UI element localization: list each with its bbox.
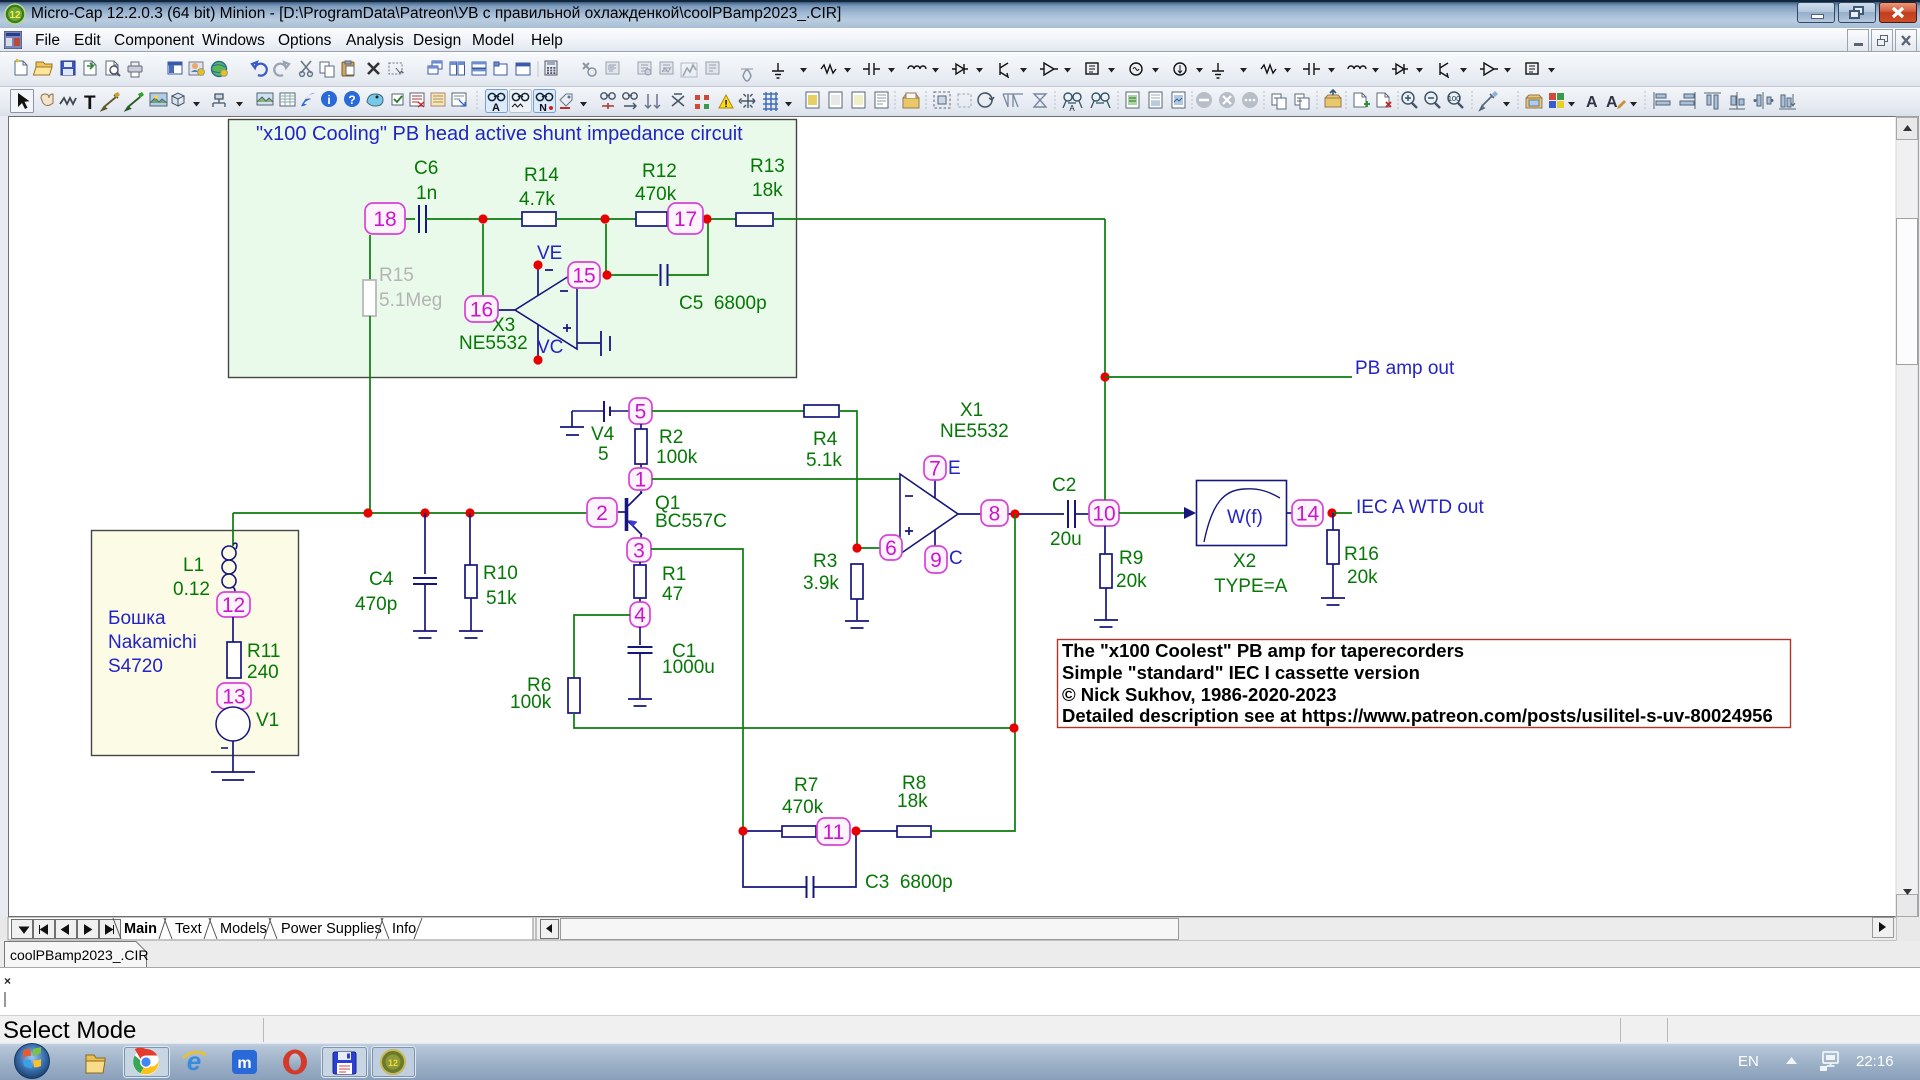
X1 pin9 supply <box>934 530 936 547</box>
svg-text:R1: R1 <box>662 564 686 585</box>
svg-text:1000u: 1000u <box>662 657 715 678</box>
svg-text:!: ! <box>724 99 727 110</box>
resistor R7 <box>782 826 816 837</box>
svg-text:A: A <box>1586 94 1598 111</box>
resistor R15 (disabled) <box>363 280 376 316</box>
svg-text:V1: V1 <box>256 710 279 731</box>
svg-text:5: 5 <box>635 401 647 424</box>
resistor R12 <box>636 212 667 226</box>
svg-text:100k: 100k <box>510 692 552 713</box>
wire node16 to X3 output <box>498 309 515 311</box>
wire R4 down to plus node <box>839 411 857 548</box>
wire plus input <box>857 547 882 549</box>
transistor Q1 <box>625 498 629 531</box>
ground R3 <box>845 621 869 628</box>
X2 input arrow <box>1184 507 1196 519</box>
wire X2 to node14 <box>1287 512 1292 514</box>
X1 pin7 supply <box>934 480 936 498</box>
svg-text:E: E <box>948 458 961 479</box>
PB amp out wire <box>1105 376 1352 378</box>
node 6 <box>880 535 902 560</box>
wire node12 to R11 <box>232 617 234 642</box>
svg-text:i: i <box>327 93 330 107</box>
resistor R11 <box>227 642 241 678</box>
svg-text:Models: Models <box>220 921 267 937</box>
svg-text:"x100 Cooling" PB head active: "x100 Cooling" PB head active shunt impe… <box>256 123 743 145</box>
node 1 <box>629 468 652 490</box>
junction node14/R16 <box>1327 508 1336 517</box>
svg-text:A: A <box>1069 104 1075 113</box>
wire node5 to R4 <box>652 410 804 412</box>
junction feedback/R6 <box>1009 723 1018 732</box>
source V1 <box>216 707 250 741</box>
ground R16 <box>1321 598 1345 605</box>
svg-text:6: 6 <box>885 537 897 560</box>
svg-text:7: 7 <box>929 458 941 481</box>
svg-text:A: A <box>492 102 500 114</box>
svg-text:18k: 18k <box>752 180 783 201</box>
svg-text:coolPBamp2023_.CIR: coolPBamp2023_.CIR <box>10 947 149 963</box>
tape head box <box>92 531 299 756</box>
junction R14/R12 <box>600 214 609 223</box>
resistor R9 <box>1104 526 1106 554</box>
svg-text:V4: V4 <box>591 424 615 445</box>
svg-text:12: 12 <box>222 594 245 617</box>
svg-text:C: C <box>949 548 963 569</box>
svg-text:R14: R14 <box>524 165 559 186</box>
resistor R10 <box>469 513 471 565</box>
node 8 <box>981 500 1008 526</box>
svg-text:R16: R16 <box>1344 544 1379 565</box>
svg-text:10: 10 <box>1092 503 1115 526</box>
svg-text:0.12: 0.12 <box>173 579 210 600</box>
wire node18 to C6 <box>405 218 415 220</box>
svg-text:1: 1 <box>635 469 647 492</box>
svg-text:NE5532: NE5532 <box>459 333 528 354</box>
svg-text:240: 240 <box>247 662 279 683</box>
resistor R3 <box>851 564 863 599</box>
svg-text:470k: 470k <box>782 797 824 818</box>
wire node4 left to R6 <box>574 615 630 678</box>
svg-text:12: 12 <box>388 1058 398 1068</box>
node 12 <box>217 592 250 617</box>
ground C4 <box>413 631 437 638</box>
svg-text:Main: Main <box>124 921 157 937</box>
svg-text:The "x100 Coolest" PB amp for: The "x100 Coolest" PB amp for taperecord… <box>1062 640 1464 661</box>
junction plus input <box>852 543 861 552</box>
ground R10 <box>459 631 483 638</box>
ground C1 <box>628 699 652 706</box>
svg-text:11: 11 <box>823 821 845 844</box>
svg-text:470k: 470k <box>635 184 677 205</box>
svg-text:2: 2 <box>596 502 608 525</box>
wire R7 left <box>743 830 782 832</box>
capacitor C3 branch <box>743 831 806 887</box>
resistor R8 <box>897 826 931 837</box>
svg-text:IEC A WTD out: IEC A WTD out <box>1356 497 1484 518</box>
svg-text:8: 8 <box>989 503 1001 526</box>
junction R13 left <box>702 214 711 223</box>
op-amp X1 <box>900 474 958 554</box>
wire into head box <box>232 513 234 546</box>
resistor R14 <box>522 212 556 226</box>
svg-text:R9: R9 <box>1119 548 1143 569</box>
wire node15 to C5 <box>607 274 658 276</box>
svg-text:22:16: 22:16 <box>1856 1053 1894 1070</box>
svg-text:4.7k: 4.7k <box>519 189 555 210</box>
node 15 <box>568 262 600 288</box>
svg-text:S4720: S4720 <box>108 656 163 677</box>
description box <box>1058 640 1791 728</box>
svg-text:C6: C6 <box>414 158 438 179</box>
junction node11/R8 <box>851 826 860 835</box>
node 3 <box>627 538 651 562</box>
svg-text:e: e <box>187 1046 201 1076</box>
wire R14-R12 junction down to node15 <box>605 224 607 275</box>
svg-text:m: m <box>237 1055 251 1072</box>
svg-text:9: 9 <box>930 549 942 572</box>
svg-text:5.1k: 5.1k <box>806 450 842 471</box>
capacitor C4 <box>424 513 426 574</box>
inductor L1 <box>233 543 237 549</box>
svg-text:C5 6800p: C5 6800p <box>679 293 767 314</box>
svg-text:T: T <box>84 93 96 114</box>
wire R8 to node11 <box>856 830 897 832</box>
wire junction down to node16 <box>482 224 484 296</box>
node 13 <box>217 683 251 709</box>
svg-text:R3: R3 <box>813 551 837 572</box>
node 5 <box>629 398 652 424</box>
battery V4 <box>572 410 604 412</box>
junction node8 output <box>1010 509 1019 518</box>
ground V1 <box>211 772 255 780</box>
svg-text:BC557C: BC557C <box>655 511 727 532</box>
svg-text:18: 18 <box>373 208 396 231</box>
X3 plus input ground <box>577 342 600 344</box>
node 14 <box>1292 500 1323 526</box>
junction node15 <box>602 270 611 279</box>
junction PB amp out <box>1100 372 1109 381</box>
svg-text:4: 4 <box>634 604 646 627</box>
svg-text:Text: Text <box>175 921 202 937</box>
svg-text:VC: VC <box>537 337 563 358</box>
svg-text:N: N <box>539 102 547 114</box>
svg-text:R2: R2 <box>659 427 683 448</box>
wire node3 right and down to feedback <box>651 549 743 831</box>
wire C6 to R14 <box>426 218 522 220</box>
svg-text:Info: Info <box>392 921 416 937</box>
svg-text:X1: X1 <box>960 400 983 421</box>
wire node10 to X2 <box>1119 512 1185 514</box>
svg-text:100: 100 <box>1448 94 1461 103</box>
svg-text:R4: R4 <box>813 429 838 450</box>
node 10 <box>1089 500 1119 526</box>
svg-text:Detailed description see at ht: Detailed description see at https://www.… <box>1062 705 1773 726</box>
svg-text:© Nick Sukhov, 1986-2020-2023: © Nick Sukhov, 1986-2020-2023 <box>1062 684 1337 705</box>
svg-text:5.1Meg: 5.1Meg <box>379 290 442 311</box>
node 18 <box>365 203 405 234</box>
op-amp X3 <box>515 271 577 349</box>
svg-text:20u: 20u <box>1050 529 1082 550</box>
svg-text:TYPE=A: TYPE=A <box>1214 576 1288 597</box>
svg-text:5: 5 <box>598 444 609 465</box>
wire node14 out <box>1332 512 1352 514</box>
capacitor C5 <box>661 264 668 286</box>
resistor R13 <box>736 213 773 226</box>
svg-text:Бошка: Бошка <box>108 608 166 629</box>
junction main/cooling branch <box>363 508 372 517</box>
svg-text:100k: 100k <box>656 447 698 468</box>
wire R13 to PB amp node <box>773 218 1105 220</box>
svg-text:X2: X2 <box>1233 551 1256 572</box>
svg-text:13: 13 <box>222 686 245 709</box>
wire node17 to R13 <box>703 218 736 220</box>
svg-text:15: 15 <box>572 265 595 288</box>
svg-text:VE: VE <box>537 243 562 264</box>
svg-text:18k: 18k <box>897 791 928 812</box>
svg-text:Power Supplies: Power Supplies <box>281 921 382 937</box>
capacitor C6 <box>419 205 426 233</box>
ground V4 <box>571 411 573 427</box>
svg-text:R12: R12 <box>642 161 677 182</box>
svg-text:NE5532: NE5532 <box>940 421 1009 442</box>
wire node18 down left branch <box>369 235 371 280</box>
resistor R1 <box>639 562 641 565</box>
wire V1 to ground <box>232 741 234 772</box>
weighting block X2 <box>1197 481 1287 546</box>
ground R9 <box>1094 620 1118 627</box>
svg-text:3.9k: 3.9k <box>803 573 839 594</box>
wire Q1 collector to node1 / emitter to node3 <box>640 491 642 494</box>
svg-text:12: 12 <box>9 10 21 21</box>
cooling-circuit box <box>229 120 797 378</box>
junction main/C4 <box>420 508 429 517</box>
svg-text:16: 16 <box>470 299 493 322</box>
junction main/R10 <box>465 508 474 517</box>
svg-text:L1: L1 <box>183 555 204 576</box>
wire R15 to main wire <box>369 316 371 513</box>
node 11 <box>817 818 850 845</box>
X1 output wire <box>958 513 1064 515</box>
main input wire <box>233 512 588 514</box>
svg-text:A: A <box>1606 94 1618 111</box>
svg-text:C3 6800p: C3 6800p <box>865 872 953 893</box>
svg-text:3: 3 <box>633 540 645 563</box>
svg-text:1n: 1n <box>416 183 437 204</box>
PB amp vertical wire <box>1104 219 1106 500</box>
wire node1 to X1 minus input <box>652 478 900 480</box>
node 4 <box>630 602 650 627</box>
svg-text:Simple "standard" IEC I casset: Simple "standard" IEC I cassette version <box>1062 662 1420 683</box>
capacitor C1 <box>639 627 641 645</box>
node 16 <box>465 296 498 322</box>
svg-text:R13: R13 <box>750 156 785 177</box>
svg-text:470p: 470p <box>355 594 397 615</box>
node 2 <box>587 498 617 527</box>
junction C6/R14 <box>478 214 487 223</box>
wire R6 to feedback node <box>574 713 1014 728</box>
svg-text:17: 17 <box>674 208 697 231</box>
X3 VC supply pin <box>537 325 539 356</box>
X3 VE supply pin <box>537 268 539 296</box>
junction R7 left <box>738 826 747 835</box>
resistor R2 <box>640 424 642 429</box>
resistor R4 <box>804 405 839 417</box>
svg-text:PB amp out: PB amp out <box>1355 358 1455 379</box>
svg-text:14: 14 <box>1296 503 1320 526</box>
node 9 <box>925 546 947 573</box>
node 7 <box>924 456 946 480</box>
capacitor C2 <box>1068 500 1075 528</box>
svg-text:R15: R15 <box>379 265 414 286</box>
resistor R16 <box>1332 513 1334 530</box>
svg-text:W(f): W(f) <box>1227 507 1263 528</box>
svg-text:R7: R7 <box>794 775 818 796</box>
svg-text:R11: R11 <box>247 641 280 662</box>
wire C5 up to R13 junction <box>668 221 708 275</box>
resistor R6 <box>568 678 580 713</box>
svg-text:20k: 20k <box>1347 567 1378 588</box>
node 17 <box>668 203 703 234</box>
svg-text:C2: C2 <box>1052 475 1076 496</box>
svg-text:C4: C4 <box>369 569 394 590</box>
svg-text:20k: 20k <box>1116 571 1147 592</box>
svg-text:47: 47 <box>662 584 683 605</box>
svg-text:EN: EN <box>1738 1053 1759 1070</box>
svg-text:?: ? <box>348 93 355 107</box>
svg-text:51k: 51k <box>486 588 517 609</box>
feedback wire from node8 <box>932 514 1015 831</box>
svg-text:R10: R10 <box>483 563 518 584</box>
svg-text:Nakamichi: Nakamichi <box>108 632 197 653</box>
wire R14 to R12 <box>556 218 636 220</box>
